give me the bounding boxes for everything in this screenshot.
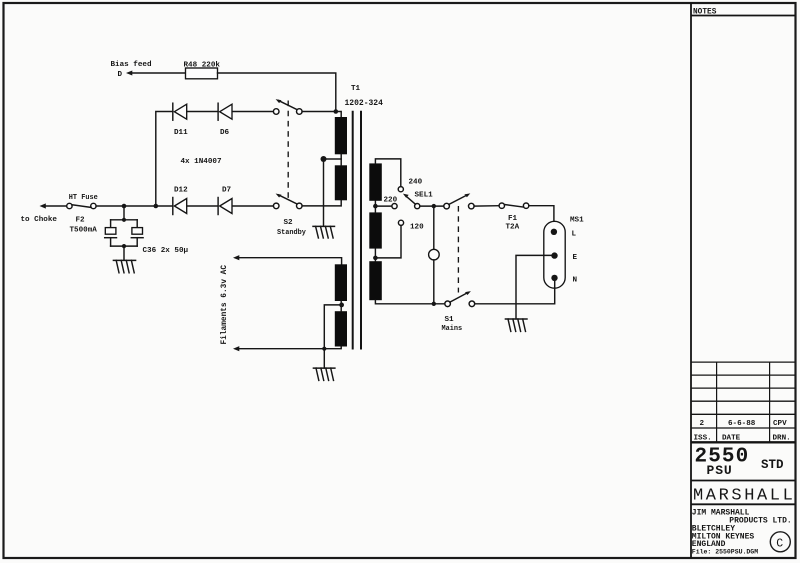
MARSHALL logo box bbox=[691, 487, 795, 506]
node junction C36 tap bbox=[122, 204, 127, 209]
title block divider bbox=[690, 3, 692, 558]
wire D7 to S2 lower pole bbox=[232, 205, 273, 207]
wire F1 to mains L pin bbox=[529, 206, 554, 232]
diode D6 bbox=[218, 103, 232, 137]
winding WB primary bbox=[369, 212, 382, 248]
svg-text:N: N bbox=[573, 277, 578, 285]
wire S2 upper to junction bbox=[302, 111, 336, 113]
node junction diode bridge left bbox=[154, 204, 159, 209]
svg-text:STD: STD bbox=[761, 458, 784, 472]
switch S1 dashed link bbox=[457, 206, 459, 293]
revision table rows bbox=[691, 362, 795, 442]
pin E bbox=[551, 252, 577, 262]
lamp LP1 bbox=[429, 206, 440, 304]
svg-text:D12: D12 bbox=[174, 187, 188, 195]
wire arrow to F2 bbox=[45, 205, 67, 207]
pin N bbox=[551, 275, 577, 285]
mains connector MS1 bbox=[544, 217, 584, 289]
winding W1 HT secondary upper bbox=[335, 117, 347, 154]
node 120 tap bbox=[398, 220, 424, 231]
resistor R48 220k bbox=[184, 61, 221, 78]
svg-text:D7: D7 bbox=[222, 187, 232, 195]
switch S2 lower pole bbox=[273, 194, 306, 238]
node filament ground junction bbox=[322, 347, 326, 351]
node D bias feed output arrow bbox=[111, 61, 152, 79]
winding W2 HT secondary lower bbox=[335, 165, 347, 200]
svg-text:PRODUCTS LTD.: PRODUCTS LTD. bbox=[729, 517, 791, 526]
node 220 tap bbox=[384, 197, 398, 209]
winding WA primary 240 bbox=[369, 163, 382, 200]
wire filament upper bbox=[239, 258, 342, 265]
svg-text:Standby: Standby bbox=[277, 229, 306, 237]
svg-text:D11: D11 bbox=[174, 129, 188, 137]
svg-text:HT Fuse: HT Fuse bbox=[69, 194, 98, 202]
wire S2 lower to winding W2 bottom bbox=[302, 200, 341, 206]
capacitor C36 2x 50u bbox=[105, 206, 189, 255]
wire R48 to junction above T1 bbox=[218, 73, 336, 112]
ground below mains E bbox=[505, 319, 527, 331]
wire left vertical joining diode rows bbox=[156, 112, 173, 207]
svg-text:1202-324: 1202-324 bbox=[345, 99, 384, 108]
wire S1 lower to N pin bbox=[475, 278, 555, 304]
svg-text:MS1: MS1 bbox=[570, 217, 584, 225]
svg-text:DRN.: DRN. bbox=[773, 435, 791, 443]
transformer T1 core bbox=[353, 111, 361, 350]
node to Choke output arrow bbox=[21, 203, 58, 224]
svg-text:F1: F1 bbox=[508, 215, 518, 223]
node junction lamp top bbox=[432, 204, 436, 208]
svg-text:2: 2 bbox=[700, 420, 705, 428]
wire D11 to D6 bbox=[187, 111, 218, 113]
node 240 tap bbox=[398, 179, 422, 192]
wire D12 to D7 bbox=[187, 205, 218, 207]
switch S2 dashed link bbox=[287, 101, 289, 201]
diode D7 bbox=[218, 187, 232, 215]
svg-text:Filaments 6.3v AC: Filaments 6.3v AC bbox=[221, 265, 229, 345]
transformer T1 label bbox=[345, 85, 384, 108]
wire 220 tap bbox=[373, 201, 392, 213]
svg-text:S1: S1 bbox=[445, 316, 455, 324]
title 2550 PSU STD bbox=[691, 445, 795, 480]
address block bbox=[692, 509, 792, 556]
svg-text:6-6-88: 6-6-88 bbox=[728, 420, 756, 428]
svg-text:DATE: DATE bbox=[722, 435, 741, 443]
svg-text:F2: F2 bbox=[76, 217, 86, 225]
svg-text:4x 1N4007: 4x 1N4007 bbox=[181, 158, 222, 166]
svg-text:MARSHALL: MARSHALL bbox=[693, 487, 795, 506]
svg-text:Mains: Mains bbox=[442, 325, 463, 333]
svg-text:T2A: T2A bbox=[506, 224, 520, 232]
wire junction into winding W1 top bbox=[336, 112, 341, 118]
pin L bbox=[551, 229, 577, 239]
svg-text:SEL1: SEL1 bbox=[415, 192, 434, 200]
svg-text:CPV: CPV bbox=[773, 420, 787, 428]
svg-text:C36 2x 50µ: C36 2x 50µ bbox=[143, 247, 189, 255]
switch S1 upper pole bbox=[444, 193, 474, 209]
wire bias feed to R48 bbox=[131, 72, 186, 74]
svg-text:D: D bbox=[118, 71, 123, 79]
svg-text:T500mA: T500mA bbox=[70, 227, 98, 235]
svg-text:ISS.: ISS. bbox=[694, 435, 712, 443]
wire filament junction to ground bbox=[323, 349, 325, 368]
wire S1 upper to F1 bbox=[474, 205, 499, 207]
switch S2 upper pole bbox=[273, 99, 302, 114]
selector SEL1 bbox=[403, 192, 433, 209]
wire SEL1 to S1 bbox=[420, 205, 444, 207]
svg-text:File: 2550PSU.DGM: File: 2550PSU.DGM bbox=[692, 548, 758, 555]
ground below filament winding bbox=[313, 368, 335, 380]
svg-text:240: 240 bbox=[409, 179, 423, 187]
svg-text:Bias feed: Bias feed bbox=[111, 61, 152, 69]
revision entry row bbox=[700, 420, 788, 428]
svg-text:PSU: PSU bbox=[707, 463, 733, 478]
svg-text:D6: D6 bbox=[220, 129, 230, 137]
node junction R48/S2/T1 top bbox=[334, 109, 339, 114]
wire C36 to ground bbox=[123, 246, 125, 260]
wire filament lower bbox=[239, 347, 341, 349]
ground at HT centre tap bbox=[313, 226, 335, 238]
filament output lower arrow bbox=[233, 346, 239, 351]
winding W3 filament upper bbox=[335, 264, 347, 301]
winding WC primary bbox=[369, 261, 382, 300]
ground below C36 bbox=[113, 260, 135, 272]
wire 120 tap bbox=[373, 225, 401, 261]
diode D11 bbox=[173, 103, 188, 137]
wire F2 to D12 bbox=[96, 205, 172, 207]
svg-text:S2: S2 bbox=[284, 219, 294, 227]
HT centre tap wire bbox=[321, 154, 342, 226]
svg-text:NOTES: NOTES bbox=[693, 9, 717, 17]
svg-text:C: C bbox=[776, 537, 783, 550]
filament output upper arrow bbox=[233, 255, 239, 260]
wire primary top to 240 tap bbox=[375, 159, 400, 187]
svg-text:T1: T1 bbox=[351, 85, 361, 93]
diode D12 bbox=[173, 187, 188, 215]
svg-text:120: 120 bbox=[410, 224, 424, 232]
revision header row bbox=[694, 435, 791, 443]
copyright mark bbox=[770, 532, 790, 552]
filament centre tap wire bbox=[324, 301, 344, 349]
switch S1 lower pole bbox=[442, 291, 475, 333]
node junction lamp bottom bbox=[432, 302, 436, 306]
wire WC bottom to S1 bbox=[375, 300, 444, 304]
fuse F2 HT Fuse T500mA bbox=[67, 194, 98, 234]
svg-text:E: E bbox=[573, 254, 578, 262]
wire E pin to ground bbox=[516, 255, 555, 319]
winding W4 filament lower bbox=[335, 311, 347, 346]
wire D6 to S2 upper pole bbox=[232, 111, 273, 113]
svg-text:to Choke: to Choke bbox=[21, 216, 58, 224]
svg-text:L: L bbox=[572, 231, 577, 239]
fuse F1 T2A bbox=[499, 203, 529, 232]
notes box bbox=[691, 9, 795, 17]
